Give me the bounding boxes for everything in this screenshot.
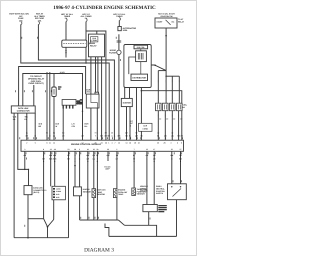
svg-text:17: 17 (82, 142, 84, 145)
relay output stub (65, 47, 67, 57)
ECM strip (21, 140, 184, 151)
svg-text:4: 4 (112, 142, 113, 145)
svg-text:PUMP CIRCUIT): PUMP CIRCUIT) (28, 82, 43, 85)
svg-text:YB: YB (116, 154, 119, 157)
condenser label (58, 86, 61, 89)
ground bus left (14, 237, 68, 239)
svg-text:L: L (114, 135, 115, 138)
svg-text:TE: TE (46, 131, 49, 134)
svg-text:LW: LW (171, 135, 174, 138)
DLC1 wire to DLC2 step (18, 113, 29, 186)
wire VSS to lower bus (148, 212, 150, 226)
svg-text:GR: GR (24, 154, 27, 157)
svg-text:30: 30 (171, 131, 173, 134)
injector pin numbers (159, 117, 182, 120)
wire tach signal right (141, 91, 181, 141)
svg-text:5: 5 (35, 142, 36, 145)
svg-text:23: 23 (101, 142, 103, 145)
svg-text:DISTRIBUTOR: DISTRIBUTOR (132, 77, 146, 80)
DLC2 label (33, 187, 46, 195)
svg-text:B: B (46, 135, 48, 138)
distributor signal wires (136, 81, 138, 141)
svg-text:BL: BL (157, 135, 159, 138)
svg-text:10: 10 (159, 117, 161, 120)
VSS box (143, 205, 157, 212)
igniter output wires (126, 107, 128, 141)
svg-text:Y: Y (43, 154, 45, 157)
ignition switch output wire (165, 28, 167, 71)
start feed diagonal (151, 65, 166, 71)
splice spur from DLC2 ground (28, 218, 44, 220)
svg-text:WR: WR (53, 154, 57, 157)
check connector text (92, 37, 98, 42)
svg-text:LG: LG (93, 158, 96, 161)
fuse hot A label (9, 13, 29, 23)
notch at ground bus right start (105, 224, 109, 237)
svg-text:ENGINE CONTROL MODULE: ENGINE CONTROL MODULE (71, 143, 101, 146)
svg-text:LW: LW (153, 154, 156, 157)
svg-text:TEMP: TEMP (118, 193, 124, 196)
svg-text:2: 2 (116, 148, 117, 151)
svg-text:28: 28 (74, 148, 76, 151)
wire splice branch right (53, 200, 55, 220)
TPS icon (132, 188, 136, 196)
svg-text:L: L (79, 154, 80, 157)
fuse A (21, 22, 22, 25)
check connector pin to ECM b (101, 57, 103, 140)
svg-text:20: 20 (96, 148, 98, 151)
svg-text:11: 11 (49, 142, 51, 145)
svg-text:2: 2 (26, 142, 27, 145)
PNP switch box (168, 184, 187, 200)
to tach note (104, 165, 111, 170)
check connector pin through VSV right (97, 57, 99, 94)
svg-text:7: 7 (134, 148, 135, 151)
wire color label W-B pair (80, 99, 82, 103)
svg-text:GW: GW (107, 154, 110, 157)
svg-text:RW: RW (170, 154, 173, 157)
svg-text:7: 7 (115, 142, 116, 145)
junction connector block (52, 186, 65, 200)
distributor label box (131, 74, 148, 80)
wire harness branch lower (23, 74, 83, 141)
diagonal to lower bus (118, 220, 124, 225)
svg-text:B: B (74, 160, 76, 163)
distributor outer box (124, 45, 151, 88)
wire circuit opening relay to DLC1 (33, 85, 35, 106)
svg-text:RELAY: RELAY (178, 20, 185, 23)
svg-text:CONN: CONN (92, 39, 98, 42)
svg-text:G: G (111, 135, 113, 138)
svg-text:10: 10 (157, 131, 159, 134)
fuse hot E label (113, 13, 126, 18)
svg-text:BW: BW (100, 135, 103, 138)
distributor to igniter wires (124, 88, 126, 99)
svg-text:40: 40 (180, 117, 182, 120)
wire C fuse to EFI relay (65, 22, 67, 41)
svg-text:27: 27 (180, 148, 182, 151)
relay label (90, 40, 97, 48)
svg-text:SENSOR: SENSOR (140, 190, 148, 193)
injectors row (156, 103, 183, 111)
wire TPS (133, 151, 135, 188)
EGR VSV box (86, 92, 99, 108)
svg-text:30: 30 (173, 117, 175, 120)
cold start injector connector box (62, 100, 76, 106)
svg-text:1: 1 (108, 142, 109, 145)
svg-text:NE: NE (135, 131, 138, 134)
fuse hot D label (81, 13, 93, 20)
wire knock sensor (74, 151, 76, 187)
ECM ground pin joins step (24, 151, 26, 169)
junction block feeds (50, 151, 52, 186)
svg-text:20: 20 (95, 142, 97, 145)
svg-text:17: 17 (153, 148, 155, 151)
svg-text:25: 25 (107, 148, 109, 151)
svg-text:W: W (34, 135, 36, 138)
svg-text:R: R (49, 135, 51, 138)
svg-text:IG: IG (26, 131, 28, 134)
svg-text:B: B (133, 160, 135, 163)
svg-text:IGNITION SW: IGNITION SW (161, 15, 173, 18)
wire DLC2 to bus (27, 195, 29, 238)
svg-text:WB: WB (117, 135, 121, 138)
condenser (52, 87, 56, 97)
IAT sensor icon (113, 189, 117, 198)
svg-text:GB: GB (146, 154, 149, 157)
ECM pin labels row (24, 131, 184, 157)
pin ticks on ECM bottom (26, 152, 182, 154)
svg-text:W: W (56, 125, 58, 128)
ignition coil label box (134, 45, 148, 49)
svg-text:BL: BL (133, 154, 135, 157)
border frame (scan edge) (1, 1, 197, 256)
svg-text:(DLC2): (DLC2) (33, 191, 39, 194)
svg-text:RELAY: RELAY (90, 45, 97, 48)
svg-text:100A: 100A (123, 29, 128, 32)
wire color mid labels (13, 116, 89, 128)
coil to rotor wire (140, 62, 142, 75)
svg-text:FC: FC (62, 131, 65, 134)
wire PNP switch feeds (171, 151, 173, 184)
svg-text:16: 16 (129, 142, 131, 145)
svg-text:SWITCH: SWITCH (156, 192, 164, 195)
wire pair mid left (46, 72, 48, 140)
ignition switch box (155, 18, 177, 28)
DLC1 outputs (26, 113, 28, 140)
svg-text:18: 18 (54, 148, 56, 151)
wire fuse B down and right (38, 24, 114, 140)
PNP switch contact (173, 189, 182, 197)
wire VSS feeds (146, 151, 148, 204)
svg-text:9: 9 (181, 142, 182, 145)
misc pin ticks (25, 80, 182, 227)
svg-text:E1: E1 (53, 131, 55, 134)
splice V (44, 219, 54, 227)
check connector pin through VSV left (90, 57, 92, 94)
svg-text:Y: Y (95, 135, 97, 138)
EGR temp label (97, 189, 106, 197)
injector feed wires (157, 71, 159, 104)
svg-text:FILTER: FILTER (109, 52, 116, 55)
fuse B (38, 22, 39, 25)
svg-text:3: 3 (171, 142, 172, 145)
injector output wires (157, 111, 159, 141)
svg-text:BT: BT (105, 131, 108, 134)
svg-text:LG: LG (53, 135, 56, 138)
alternator fusible link box (118, 27, 121, 31)
svg-text:START: START (157, 21, 164, 24)
noise filter circle (117, 50, 121, 54)
svg-text:W: W (111, 131, 113, 134)
svg-text:PB: PB (179, 154, 182, 157)
TPS label (137, 188, 148, 196)
svg-text:GR: GR (81, 135, 84, 138)
DLC1 ground wire to bus (13, 113, 15, 238)
connector pin teeth (63, 105, 73, 108)
svg-text:28: 28 (164, 142, 166, 145)
svg-text:TIMES: TIMES (116, 15, 123, 18)
svg-text:STA: STA (72, 125, 76, 128)
wire harness branch upper (19, 67, 86, 106)
DLC1 label (17, 107, 30, 113)
svg-text:GY: GY (116, 158, 119, 161)
fuse C (66, 19, 67, 22)
DLC2 box (24, 186, 32, 195)
svg-text:14: 14 (53, 142, 55, 145)
svg-text:BY: BY (67, 154, 70, 157)
wire ECM sensor ground right leg (68, 151, 70, 237)
svg-text:4 A/D: 4 A/D (60, 71, 65, 74)
svg-text:PB: PB (181, 135, 184, 138)
wire aux column (62, 108, 64, 140)
wire sensor return 1 (79, 151, 81, 220)
svg-text:LR: LR (62, 135, 65, 138)
connector label rows (77, 100, 83, 105)
svg-text:BW: BW (49, 154, 52, 157)
svg-text:RL: RL (96, 154, 98, 157)
camshaft signal connector box (139, 123, 153, 131)
coil primary bars (137, 53, 139, 60)
PNP label text (156, 185, 165, 195)
svg-text:15A: 15A (38, 19, 42, 22)
svg-text:JUNC: JUNC (56, 187, 61, 190)
svg-text:20: 20 (166, 117, 168, 120)
svg-text:23: 23 (68, 148, 70, 151)
wire switch to ground bus (176, 200, 178, 237)
svg-text:12: 12 (146, 148, 148, 151)
svg-text:WB: WB (86, 154, 90, 157)
ignition coil inner box (136, 51, 147, 62)
injector bus left (158, 70, 166, 72)
svg-text:13: 13 (50, 148, 52, 151)
svg-text:CONN: CONN (56, 190, 62, 193)
svg-text:5: 5 (79, 148, 80, 151)
svg-text:8: 8 (43, 148, 44, 151)
svg-text:10: 10 (118, 142, 120, 145)
sensor ground bus (80, 219, 119, 221)
svg-text:10A: 10A (19, 19, 23, 22)
knock sensor label (83, 188, 92, 193)
VSV label (86, 88, 91, 93)
svg-text:15: 15 (93, 148, 95, 151)
knock sensor box (74, 187, 82, 196)
svg-text:13: 13 (126, 142, 128, 145)
wire splice branch left (43, 151, 45, 218)
svg-text:22: 22 (138, 142, 140, 145)
svg-text:B: B (97, 160, 99, 163)
svg-text:G: G (79, 158, 81, 161)
svg-text:CONNECTOR: CONNECTOR (17, 110, 30, 113)
relay output to bus A (85, 47, 87, 63)
lower bus mid (125, 225, 157, 236)
svg-text:6: 6 (177, 142, 178, 145)
svg-text:DATA LINK: DATA LINK (18, 107, 29, 110)
igniter box (121, 98, 132, 106)
IAT label (118, 189, 128, 197)
svg-text:AMP: AMP (105, 168, 110, 171)
svg-text:DIAGRAM 3: DIAGRAM 3 (84, 248, 114, 254)
alternator link label (123, 27, 137, 32)
condenser bar (53, 89, 55, 95)
below-strip wire color labels (42, 158, 182, 163)
check connector box (89, 34, 105, 57)
svg-text:IGT: IGT (125, 131, 129, 134)
coil label to coil wire (140, 49, 142, 51)
wire branch D right to center column (86, 31, 106, 140)
svg-text:E1: E1 (25, 118, 27, 121)
wire sensor return 2 (87, 151, 89, 220)
noise filter label (109, 49, 117, 55)
svg-text:SENSOR: SENSOR (97, 193, 106, 196)
fuse E (119, 18, 120, 21)
svg-text:IGNITER: IGNITER (123, 102, 132, 105)
svg-text:B: B (171, 158, 173, 161)
ground bus right (109, 235, 177, 237)
fuse hot C label (61, 13, 74, 20)
wire IAT sensor (116, 151, 118, 188)
svg-text:BR: BR (26, 135, 29, 138)
check connector internal label box (91, 37, 98, 42)
svg-text:26: 26 (105, 142, 107, 145)
stub to tachometer (107, 151, 109, 161)
VSV internal valve (91, 94, 97, 108)
pin ticks on ECM top (16, 41, 183, 227)
injector bus right (166, 75, 179, 77)
wire condenser column (53, 74, 55, 88)
EFI main relay (62, 40, 87, 47)
check connector feed stub (96, 31, 98, 34)
relay internal dashed line (63, 43, 85, 45)
svg-text:3: 3 (24, 148, 25, 151)
check connector pin to ECM a (95, 57, 97, 92)
svg-text:RL: RL (129, 135, 131, 138)
svg-text:8: 8 (47, 142, 48, 145)
svg-text:SENSOR: SENSOR (83, 190, 92, 193)
svg-text:SENSOR: SENSOR (137, 193, 146, 196)
svg-text:10: 10 (87, 148, 89, 151)
VSS label rows (158, 205, 167, 212)
pickup coil wire (129, 57, 136, 74)
svg-text:CONN: CONN (143, 127, 149, 130)
wire sensor return 3 (96, 151, 98, 220)
fuse D (86, 19, 87, 22)
wire EGR temp sensor (93, 151, 95, 188)
svg-text:22: 22 (171, 148, 173, 151)
injector group label (182, 104, 188, 109)
wire fuse A down and right (21, 24, 109, 140)
svg-text:GB: GB (164, 135, 167, 138)
noise filter column wire (118, 21, 120, 30)
svg-text:GW: GW (135, 135, 138, 138)
wire D fuse to EFI relay (85, 22, 87, 41)
to circuit opening relay note (28, 75, 45, 85)
DLC1 box (11, 106, 35, 113)
svg-text:YB: YB (140, 135, 143, 138)
svg-text:BR: BR (67, 158, 70, 161)
svg-text:L: L (146, 158, 147, 161)
EGR temp sensor icon (92, 189, 96, 198)
svg-text:1996-97 4-CYLINDER ENGINE SCHE: 1996-97 4-CYLINDER ENGINE SCHEMATIC (53, 5, 156, 11)
igniter pin labels (130, 120, 134, 128)
svg-text:IG1: IG1 (172, 21, 175, 24)
svg-text:IGN COIL: IGN COIL (137, 46, 146, 49)
ignition switch labels (158, 12, 176, 17)
svg-text:19: 19 (134, 142, 136, 145)
svg-text:25: 25 (157, 142, 159, 145)
tick labels top (22, 37, 116, 39)
ignition switch contact (166, 20, 171, 25)
fuse hot B label (34, 13, 45, 23)
svg-text:G: G (74, 154, 76, 157)
